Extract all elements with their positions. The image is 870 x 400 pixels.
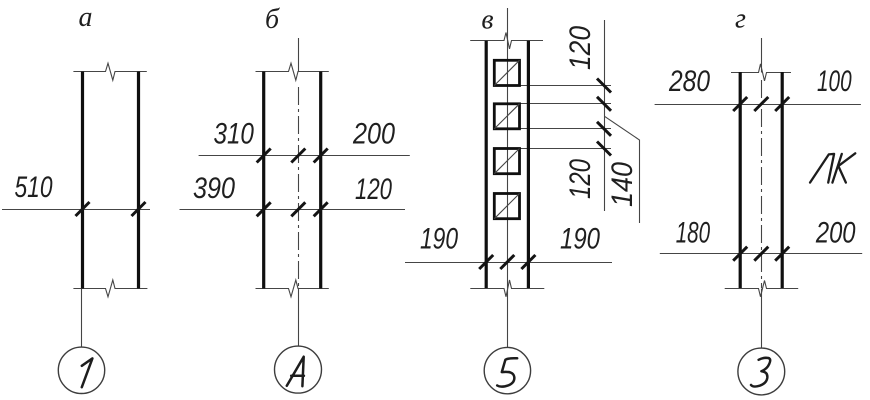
- svg-text:510: 510: [15, 171, 53, 204]
- svg-text:190: 190: [560, 223, 600, 256]
- svg-text:180: 180: [676, 217, 711, 250]
- svg-text:190: 190: [420, 223, 458, 256]
- svg-text:390: 390: [193, 172, 235, 205]
- svg-text:г: г: [735, 4, 746, 35]
- svg-text:140: 140: [606, 162, 639, 207]
- svg-text:а: а: [79, 2, 93, 33]
- svg-text:200: 200: [815, 217, 856, 250]
- svg-text:в: в: [481, 5, 493, 36]
- svg-text:б: б: [265, 4, 280, 35]
- svg-text:120: 120: [564, 26, 597, 70]
- svg-text:120: 120: [564, 159, 597, 199]
- svg-text:200: 200: [352, 118, 395, 151]
- svg-text:100: 100: [817, 65, 852, 98]
- svg-text:280: 280: [668, 65, 710, 98]
- svg-text:120: 120: [355, 173, 392, 206]
- svg-text:310: 310: [213, 118, 254, 151]
